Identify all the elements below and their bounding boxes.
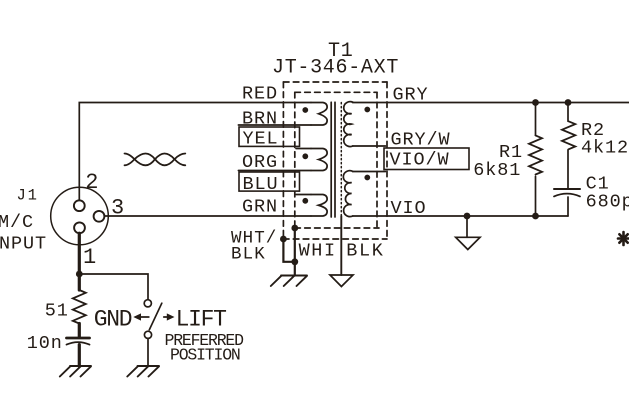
node: WHI shield junction dot [291,225,298,232]
ground: chassis ground under switch [127,366,159,377]
wire: GRY/W stub [353,145,386,147]
ground: chassis ground under shields [271,276,307,287]
winding P2 (YEL-ORG) right edge [311,149,327,171]
node: dot VIO ground [464,213,471,220]
svg-text:M/C: M/C [0,212,34,233]
svg-text:RED: RED [242,84,278,105]
svg-text:BLK: BLK [346,240,384,261]
svg-text:3: 3 [111,195,124,220]
ground: signal ground triangle under VIO rail [456,237,480,249]
wire: GRN net from XLR pin3 to transformer [104,215,311,217]
ground: signal ground triangle under BLK [330,275,353,287]
transformer inner faraday shield dashed lines [294,92,296,228]
wire: BRN stub [238,124,311,126]
transformer electrostatic shield dotted line [340,103,342,217]
svg-text:GRN: GRN [242,197,278,218]
wire: RED net top rail from XLR pin2 riser to transformer [79,103,311,201]
pin 2 contact circle [74,200,85,211]
svg-text:VIO: VIO [391,198,427,219]
wire: thick ground lead from pin 1 down [78,233,81,290]
label BLU box [239,172,300,191]
label VIO/W box [384,148,469,170]
svg-text:680p: 680p [586,191,629,212]
phase dot winding P1 [302,107,308,113]
phase dot winding P3 [302,198,308,204]
resistor R2 zigzag [562,121,575,149]
phase dot winding P2 [302,153,308,159]
capacitor 10n curved bottom plate [67,342,90,345]
switch: GND/LIFT top contact [144,300,151,307]
wire: WHI lead down to ground [294,228,296,276]
switch: GND/LIFT bottom contact [144,331,151,338]
wire: C1 to bottom rail [567,197,569,216]
svg-text:VIO/W: VIO/W [390,149,450,170]
svg-text:WHI: WHI [299,240,337,261]
wire: BLK shield lead down to signal ground [340,216,342,275]
capacitor C1 curved bottom plate [554,194,580,197]
svg-text:BLU: BLU [243,174,279,195]
svg-text:POSITION: POSITION [170,346,240,365]
winding S1 (GRY-GRY/W) left edge [344,102,353,147]
switch lever [149,303,162,330]
svg-text:1: 1 [83,245,96,270]
resistor R1 leads [535,103,537,217]
twisted pair symbol [125,154,186,166]
ground: chassis ground under 10n [60,366,91,377]
svg-text:2: 2 [85,170,98,195]
svg-text:BLK: BLK [231,245,266,265]
resistor 51 zigzag [73,290,86,324]
wire: switch to chassis ground [147,338,149,366]
wire: thick lead capacitor to chassis ground [78,345,81,366]
arrow: right arrow pointing to LIFT [164,316,169,318]
svg-text:INPUT: INPUT [0,233,47,254]
node: junction dot WHT/BLK meets WHI [291,258,298,265]
resistor R1 zigzag [529,135,542,174]
node: WHT/BLK shield junction dot [280,236,287,243]
asterisk footnote symbol [618,232,629,245]
node: dot R1 bottom [532,213,539,220]
pin 1 contact circle [74,222,85,233]
capacitor C1 top plate [554,188,580,190]
svg-text:GRY/W: GRY/W [391,129,451,150]
winding S2 (VIO/W-VIO) left edge [343,171,352,217]
svg-text:4k12: 4k12 [581,138,629,159]
svg-text:YEL: YEL [243,129,279,150]
phase dot winding S2 [364,175,370,181]
wire: YEL stub [296,148,311,150]
connector J1 XLR body circle [51,187,109,245]
wire: BLU stub [296,194,311,196]
transformer core lines [331,102,335,217]
phase dot winding S1 [364,107,370,113]
capacitor 10n top plate [67,337,90,340]
node: dot R1 top [532,99,539,106]
svg-text:BRN: BRN [242,108,278,129]
svg-text:GND: GND [94,307,132,333]
node: junction dot on ground lead [76,271,83,278]
winding P1 (RED-BRN) right edge [311,103,327,126]
arrow: left arrow pointing to GND [140,316,149,318]
transformer T1 outer dashed shield box [283,81,387,83]
svg-text:10n: 10n [27,333,63,354]
wire: junction to ground-lift switch [79,274,148,300]
svg-text:51: 51 [45,300,69,321]
node: dot R2 top [565,99,572,106]
svg-text:GRY: GRY [393,84,429,105]
wire: VIO/W stub [353,171,386,173]
wire: VIO to signal ground [466,216,468,237]
svg-text:LIFT: LIFT [176,307,227,333]
label YEL box [239,127,300,146]
wire: ORG stub [238,170,311,172]
resistor R2 leads [567,103,569,189]
wire: GRY net top rail right [353,102,629,104]
svg-text:JT-346-AXT: JT-346-AXT [272,57,399,80]
svg-text:6k81: 6k81 [473,160,521,181]
wire: VIO net bottom rail right [353,215,568,217]
svg-text:J1: J1 [17,187,39,205]
wire: WHT/BLK lead L-shape joining WHI [283,239,294,262]
pin 3 contact circle [94,211,105,222]
wire: thick lead resistor to capacitor [78,324,81,338]
svg-text:ORG: ORG [242,152,278,173]
winding P3 (BLU-GRN) right edge [311,195,327,217]
